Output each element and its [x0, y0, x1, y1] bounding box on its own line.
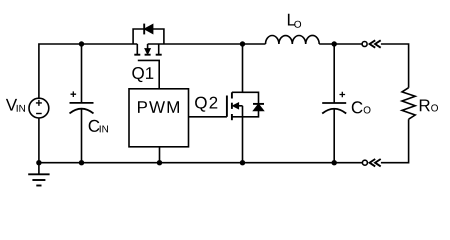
terminal: VOUT- chevrons	[370, 159, 381, 166]
wire CO top lead	[333, 44, 335, 103]
label CIN	[89, 120, 108, 133]
wire CIN bottom lead	[81, 109, 83, 163]
wire CO bottom lead	[333, 109, 335, 163]
diode D1 (Q1 body diode)	[133, 24, 164, 44]
wire top rail right: inductor to output terminal	[319, 43, 362, 45]
wire Q2 source lead	[242, 117, 244, 163]
wire Q2 drain lead	[242, 44, 244, 92]
label RO	[420, 100, 438, 112]
voltage source VIN	[29, 98, 49, 118]
resistor RO	[402, 88, 415, 120]
label Q1	[132, 67, 153, 82]
node: input junction dot (top rail / CIN)	[79, 41, 84, 46]
diode D2 (Q2 body diode)	[243, 92, 265, 117]
capacitor CIN	[70, 91, 94, 113]
wire bottom right: terminal to RO bottom	[381, 119, 409, 163]
terminal: VOUT+ chevrons	[370, 40, 381, 47]
label LO	[288, 14, 301, 28]
label Q2	[195, 97, 217, 112]
node: output node dot	[332, 41, 337, 46]
wire CIN top lead	[81, 44, 83, 103]
terminal: VOUT- open circle	[362, 160, 367, 165]
wire PWM bottom lead	[159, 147, 161, 163]
terminal: VOUT+ open circle	[362, 42, 367, 47]
wire PWM to Q2 gate	[189, 116, 227, 118]
node: switch node dot	[240, 41, 245, 46]
transistor Q1	[134, 44, 161, 89]
label PWM	[138, 101, 179, 113]
label CO	[352, 101, 371, 113]
node: CO bottom dot	[332, 160, 337, 165]
node: PWM ground dot	[157, 160, 162, 165]
transistor Q2	[227, 92, 243, 120]
wire top right: terminal to RO top	[381, 44, 409, 88]
capacitor CO	[322, 92, 346, 114]
ground	[28, 163, 49, 186]
node: Q2 source dot	[240, 160, 245, 165]
wire bottom rail	[39, 162, 363, 164]
node: ground junction dot at VIN	[36, 160, 41, 165]
label VIN	[6, 99, 25, 112]
node: CIN bottom dot	[79, 160, 84, 165]
wire VIN bottom lead	[38, 118, 40, 163]
inductor LO	[266, 35, 320, 44]
wire top rail left: VIN corner to Q1 drain	[39, 44, 137, 98]
PWM controller U1	[129, 89, 189, 147]
wire top rail mid: Q1 arrow/source to switch node	[148, 43, 266, 45]
